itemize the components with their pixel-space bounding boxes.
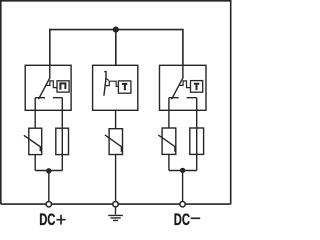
svg-text:DC: DC <box>174 210 190 227</box>
svg-text:DC: DC <box>39 210 55 227</box>
